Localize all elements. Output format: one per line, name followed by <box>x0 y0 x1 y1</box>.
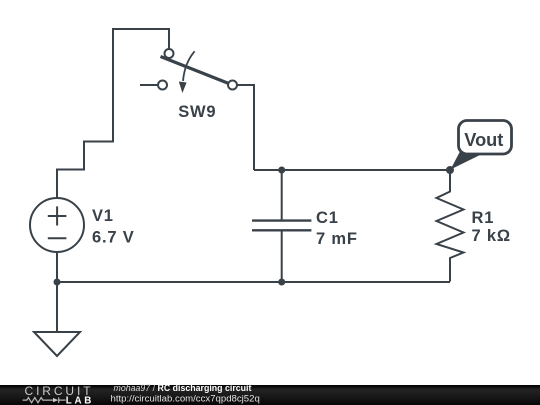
svg-text:7 kΩ: 7 kΩ <box>472 227 511 245</box>
svg-text:C1: C1 <box>316 209 339 227</box>
junction dot at capacitor bottom <box>278 279 285 286</box>
junction dot at V1 bottom <box>54 279 61 286</box>
svg-text:V1: V1 <box>92 207 114 225</box>
voltage source V1 <box>30 198 84 252</box>
capacitor C1 <box>252 221 311 231</box>
wire from switch closed throw down to Vout row <box>237 85 254 170</box>
svg-text:Vout: Vout <box>464 130 503 150</box>
wire capacitor bottom lead <box>281 232 283 283</box>
switch SW9 <box>158 49 237 93</box>
wire node row to resistor <box>254 169 450 171</box>
svg-text:7 mF: 7 mF <box>316 230 358 248</box>
svg-text:6.7 V: 6.7 V <box>92 229 135 247</box>
svg-text:http://circuitlab.com/ccx7qpd8: http://circuitlab.com/ccx7qpd8cj52q <box>111 394 260 405</box>
resistor R1 <box>437 170 464 282</box>
junction dot at capacitor top / Vout row <box>278 167 285 174</box>
svg-text:LAB: LAB <box>66 395 94 405</box>
wire capacitor top lead <box>281 170 283 220</box>
footer bar <box>0 385 540 405</box>
wire V1 minus terminal down to ground <box>56 253 58 332</box>
svg-text:SW9: SW9 <box>178 103 216 121</box>
svg-text:mohaa97 / RC discharging circu: mohaa97 / RC discharging circuit <box>114 383 252 393</box>
ground <box>34 332 80 356</box>
svg-text:R1: R1 <box>472 209 495 227</box>
node Vout callout <box>451 121 512 170</box>
wire open-throw stub <box>140 84 158 86</box>
wire bottom rail <box>57 281 450 283</box>
CircuitLab logo squiggle <box>23 397 66 403</box>
wire from V1 plus terminal stepping up to switch common <box>57 29 169 198</box>
node dot Vout <box>446 166 454 174</box>
